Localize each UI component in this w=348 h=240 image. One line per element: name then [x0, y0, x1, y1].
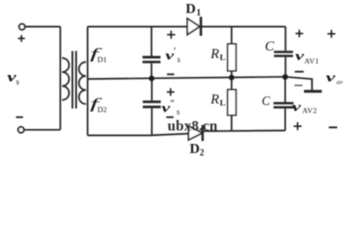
- svg-text:s: s: [177, 55, 180, 64]
- svg-text:1: 1: [196, 7, 201, 17]
- svg-text:D2: D2: [97, 105, 107, 114]
- svg-text:C: C: [265, 39, 275, 54]
- svg-text:2: 2: [200, 148, 205, 157]
- svg-text:D: D: [186, 2, 196, 17]
- svg-text:s: s: [16, 76, 19, 86]
- svg-text:D1: D1: [97, 55, 107, 64]
- svg-text:v: v: [292, 99, 301, 114]
- svg-text:″: ″: [170, 99, 175, 109]
- svg-text:L: L: [220, 52, 226, 62]
- svg-text:av: av: [337, 79, 343, 86]
- svg-text:v: v: [326, 70, 336, 85]
- svg-text:ubx8.cn: ubx8.cn: [168, 118, 218, 134]
- svg-text:C: C: [262, 94, 271, 108]
- svg-text:R: R: [210, 93, 220, 108]
- svg-text:s: s: [177, 108, 180, 117]
- svg-text:D: D: [190, 142, 200, 157]
- svg-text:′: ′: [174, 46, 177, 56]
- svg-text:R: R: [210, 47, 220, 62]
- svg-text:AV2: AV2: [302, 106, 317, 115]
- svg-text:L: L: [220, 98, 226, 108]
- svg-text:AV1: AV1: [304, 57, 319, 66]
- svg-text:v: v: [295, 48, 304, 63]
